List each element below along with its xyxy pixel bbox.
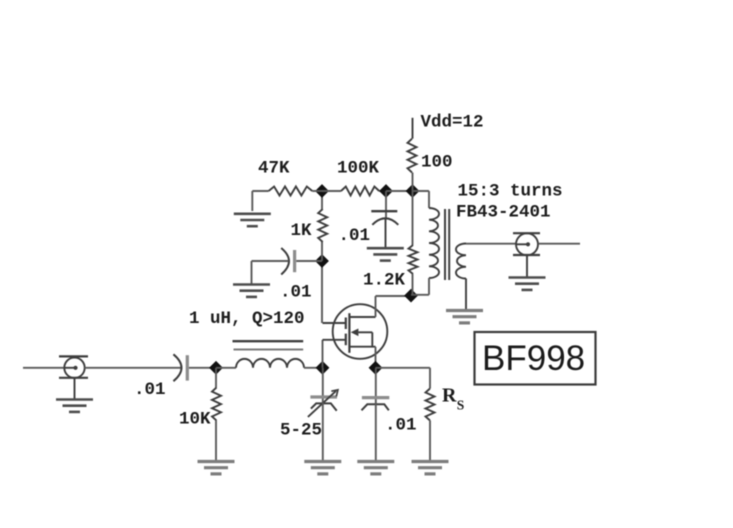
wire C4 to corner <box>252 261 289 284</box>
label Vdd=12 <box>421 112 484 132</box>
wire C3 to ground <box>375 403 377 461</box>
label FB43-2401 <box>456 203 551 223</box>
svg-text:Vdd=12: Vdd=12 <box>421 112 484 132</box>
wire C2 to ground <box>322 402 324 461</box>
svg-text:.01: .01 <box>385 416 417 436</box>
resistor R3 100K <box>341 187 379 196</box>
svg-text:1K: 1K <box>291 221 313 241</box>
node G1 junction <box>316 361 330 375</box>
svg-text:R: R <box>442 385 457 407</box>
label 15:3 turns <box>458 182 563 202</box>
label 5-25 <box>280 421 322 441</box>
ground 47K <box>234 214 271 226</box>
wire node E to T1 primary <box>413 191 430 208</box>
label .01 gate2 <box>280 283 312 303</box>
node A junction <box>315 184 329 198</box>
wire secondary bottom to ground <box>465 279 467 310</box>
svg-text:.01: .01 <box>339 226 371 246</box>
ground input connector <box>56 400 93 412</box>
svg-text:5-25: 5-25 <box>280 421 322 441</box>
wire drain up <box>375 296 377 317</box>
label .01 drain <box>339 226 371 246</box>
svg-text:100: 100 <box>421 152 453 172</box>
wire input left <box>23 367 65 369</box>
wire 100K to node C <box>379 190 386 192</box>
ground 5-25 <box>304 462 341 474</box>
svg-text:BF998: BF998 <box>482 339 585 378</box>
svg-text:S: S <box>457 398 465 413</box>
transformer T1 secondary winding <box>456 244 466 279</box>
svg-text:47K: 47K <box>258 159 290 179</box>
node D junction <box>404 289 418 303</box>
wire node C to node E <box>386 190 413 192</box>
wire output right <box>538 243 580 245</box>
wire 1K to node A <box>321 191 323 209</box>
ground output connector <box>509 278 546 290</box>
wire connector to ground <box>74 378 76 399</box>
resistor R2 1K <box>318 209 327 242</box>
label 1.2K <box>363 271 406 291</box>
wire node E down to 1.2K <box>412 191 414 245</box>
label 47K <box>258 159 290 179</box>
label box BF998 <box>475 332 596 385</box>
ground Rs <box>412 462 449 474</box>
capacitor C2 5-25 trimmer <box>308 390 338 417</box>
wire node B up to R 1K <box>321 242 323 261</box>
label .01 source <box>385 416 417 436</box>
node C junction <box>379 184 393 198</box>
wire 100 to node E <box>412 173 414 192</box>
inductor L1 1uH <box>236 359 304 368</box>
ground C5 <box>367 248 404 260</box>
label 1K <box>291 221 313 241</box>
resistor R5 1.2K <box>409 245 418 274</box>
node E junction <box>406 184 420 198</box>
wire gate1 lead <box>323 339 346 341</box>
ground T1 secondary <box>446 311 483 323</box>
connector J1 input (coax) <box>59 356 88 378</box>
resistor R4 100 <box>408 139 417 173</box>
ground C3 <box>357 462 394 474</box>
wire node B to C4 <box>296 260 322 262</box>
svg-text:FB43-2401: FB43-2401 <box>456 203 551 223</box>
resistor 10K <box>212 388 221 421</box>
svg-text:.01: .01 <box>280 283 312 303</box>
wire node to R 10K <box>215 368 217 388</box>
wire Rs to ground <box>429 421 431 462</box>
wire node G1 down to C2 <box>322 368 324 404</box>
wire drain to node D <box>376 295 412 297</box>
core line 2 of L1 <box>234 349 304 351</box>
core line 1 of L1 <box>233 340 304 342</box>
wire connector to C1 <box>85 367 181 369</box>
transistor Q1 BF998 dual-gate MOSFET <box>323 304 388 359</box>
svg-text:1.2K: 1.2K <box>363 271 406 291</box>
label .01 input <box>134 380 166 400</box>
svg-text:15:3 turns: 15:3 turns <box>458 182 563 202</box>
resistor Rs <box>426 389 435 421</box>
transformer T1 primary winding <box>429 208 439 278</box>
node S junction <box>369 361 383 375</box>
label 100K <box>337 159 380 179</box>
wire secondary to output connector <box>466 243 517 245</box>
wire node S to C3 <box>375 368 377 404</box>
label 1 uH, Q>120 <box>189 309 305 329</box>
capacitor C3 .01 source bypass <box>362 398 390 411</box>
capacitor C5 .01 drain bypass <box>371 211 398 225</box>
wire C5 to ground <box>385 218 387 247</box>
wire Vdd stub <box>412 118 414 139</box>
wire 10K to ground <box>215 421 217 461</box>
label 100 <box>421 152 453 172</box>
svg-text:.01: .01 <box>134 380 166 400</box>
svg-text:100K: 100K <box>337 159 380 179</box>
connector J2 output (coax) <box>513 233 540 255</box>
svg-text:10K: 10K <box>179 410 211 430</box>
wire gate2 up to node B <box>321 261 323 323</box>
wire C1 to node G1IN <box>189 367 216 369</box>
transformer T1 core <box>445 209 449 280</box>
label 10K <box>179 410 211 430</box>
label Rs <box>442 385 464 413</box>
resistor R1 47K <box>269 187 313 196</box>
wire node C down to C5 <box>385 191 387 218</box>
ground C4 <box>233 285 270 297</box>
wire node to L1 <box>216 367 236 369</box>
ground 10K <box>198 462 235 474</box>
wire node A to 100K <box>322 190 341 192</box>
wire T1 primary bottom <box>411 278 429 295</box>
wire node G1 up to gate1 <box>322 340 324 368</box>
capacitor C4 .01 gate2 bypass <box>281 248 294 275</box>
wire 47K to node A <box>312 190 322 192</box>
node J1 junction <box>209 361 223 375</box>
wire L1 to node G1 <box>304 367 323 369</box>
wire source down to node S <box>375 347 377 368</box>
wire node S to Rs <box>376 368 431 389</box>
wire 47K left arm <box>252 191 268 211</box>
wire 1.2K to node D <box>412 274 414 296</box>
capacitor C1 .01 input coupling <box>173 354 187 381</box>
svg-text:1 uH, Q>120: 1 uH, Q>120 <box>189 309 305 329</box>
wire output connector to ground <box>526 255 528 276</box>
node B junction <box>315 254 329 268</box>
